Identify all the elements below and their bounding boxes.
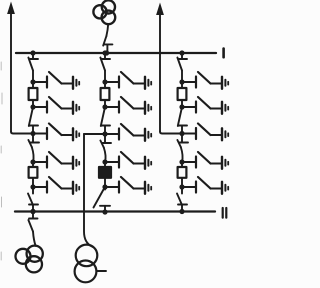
node bay3 busbar II (179, 209, 184, 214)
earthing switch bay2 row3 (105, 124, 151, 141)
earthing switch bay1 row3 (33, 124, 79, 141)
earthing switch bay3 row2 (182, 97, 228, 114)
earthing switch bay2 row1 (105, 72, 151, 89)
disconnector QS2 bay2 (101, 107, 110, 134)
line W2 arrowhead (156, 3, 164, 16)
node bay2 n1 (102, 79, 107, 84)
disconnector QS2 bay1 (29, 107, 38, 134)
node bay1 n3 (30, 159, 35, 164)
earthing switch bay3 row4 (182, 152, 228, 169)
node bay3 n4 (179, 184, 184, 189)
node bay3 n1 (179, 79, 184, 84)
node bay1 busbar II (30, 209, 35, 214)
wire bay2 n3-n4 (104, 162, 106, 187)
transformer T1 (three-winding) (93, 0, 115, 24)
earthing switch bay3 row5 (182, 177, 228, 194)
wire W1 to bay1 mid node (11, 132, 33, 134)
node bay2 busbar II (102, 209, 107, 214)
earthing switch bay2 row2 (105, 97, 151, 114)
wire W2 to bay3 mid node (160, 132, 182, 134)
wire bay1 n1-n2 (32, 82, 34, 107)
earthing switch bay1 row4 (33, 152, 79, 169)
node bay3 mid (179, 131, 184, 136)
node bay2 busbar I (102, 50, 107, 55)
disconnector QS4 bay2 (mirrored blade) (94, 187, 111, 212)
disconnector QS1 bay3 (177, 53, 187, 82)
circuit breaker Q1 bay2 (101, 88, 110, 100)
wire bay1 n3-n4 (32, 162, 34, 187)
disconnector QS2 bay3 (178, 107, 187, 134)
busbar I (16, 52, 216, 54)
busbar II label II (223, 208, 227, 218)
disconnector QS3 bay2 (100, 134, 111, 162)
scan noise left edge (0, 62, 3, 260)
node bay2 n3 (102, 159, 107, 164)
node bay3 busbar I (179, 50, 184, 55)
transformer T2 (three-winding) (16, 246, 43, 273)
circuit breaker Q2 bay2 (99, 167, 111, 178)
wire W1 vertical (10, 12, 12, 132)
circuit breaker Q2 bay1 (29, 167, 38, 178)
wire bay3 n3-n4 (181, 162, 183, 187)
node bay3 n2 (179, 104, 184, 109)
node bay2 mid (102, 131, 107, 136)
earthing switch bay1 row1 (33, 72, 79, 89)
earthing switch bay1 row5 (33, 177, 79, 194)
busbar I label I (222, 49, 225, 58)
wire T3 secondary stub (97, 270, 106, 272)
node bay1 mid (30, 131, 35, 136)
earthing switch bay2 row5 (105, 177, 151, 194)
circuit breaker Q1 bay1 (29, 88, 38, 100)
node bay2 n2 (102, 104, 107, 109)
earthing switch bay1 row2 (33, 97, 79, 114)
circuit breaker Q2 bay3 (178, 167, 187, 178)
node bay1 busbar I (30, 50, 35, 55)
node T2 on busbar II (30, 209, 35, 214)
node T1 on busbar I (104, 50, 109, 55)
earthing switch bay3 row1 (182, 72, 228, 89)
node bay1 n1 (30, 79, 35, 84)
earthing switch bay2 row4 (105, 152, 151, 169)
wire bay2 mid horizontal (84, 133, 105, 135)
wire bay2 mid tap to T3 (crosses busbar II) (84, 134, 93, 247)
wire W2 vertical (crosses busbar I) (159, 13, 161, 132)
node bay1 n4 (30, 184, 35, 189)
wire bay2 n1-n2 (104, 82, 106, 107)
earthing switch bay3 row3 (182, 124, 228, 141)
busbar II (15, 210, 215, 212)
node bay2 n4 (102, 184, 107, 189)
disconnector QS-T2 (28, 212, 37, 232)
wire T1 lead (106, 24, 108, 36)
node bay3 n3 (179, 159, 184, 164)
line W1 arrowhead (7, 2, 15, 15)
disconnector QS1 bay2 (100, 53, 110, 82)
disconnector QS-T1 (103, 36, 112, 53)
wire T2 lead (33, 232, 36, 246)
transformer T3 (two-winding) (75, 245, 98, 283)
node bay1 n2 (30, 104, 35, 109)
circuit breaker Q1 bay3 (178, 88, 187, 100)
disconnector QS1 bay1 (28, 53, 38, 82)
disconnector QS3 bay1 (28, 134, 39, 163)
disconnector QS3 bay3 (177, 134, 188, 163)
wire bay3 n1-n2 (181, 82, 183, 107)
disconnector QS4 bay3 (177, 187, 187, 212)
disconnector QS4 bay1 (28, 187, 38, 212)
